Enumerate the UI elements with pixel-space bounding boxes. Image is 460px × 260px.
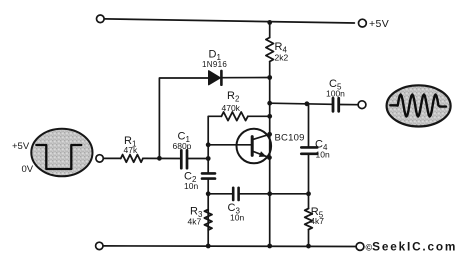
svg-text:1N916: 1N916 [202,60,227,69]
input source symbol (pulse ellipse) [12,129,93,177]
wire input [103,157,120,159]
wire: base [208,144,251,146]
wire [340,104,358,106]
wire: C3 line [208,193,232,195]
terminal top-right (+5V) [359,19,367,27]
svg-text:10n: 10n [316,150,330,160]
resistor R2 (470k) [221,112,248,121]
resistor R3 (4k7) [204,210,212,231]
terminal bottom-left [96,242,103,249]
svg-text:4k7: 4k7 [310,216,324,226]
transistor Q1 BC109 [237,129,305,164]
terminal output [358,101,366,109]
wire: main vertical collector line [269,22,271,37]
resistor R1 (47k) [121,155,143,163]
wire [143,157,180,159]
wire [240,193,309,195]
terminal top-left [97,15,105,23]
label +5V (top right) [369,18,389,30]
svg-text:47k: 47k [124,145,138,155]
bottom rail [103,245,356,248]
wire: R2 branch vertical [208,116,221,158]
pulse waveform [36,145,81,169]
svg-text:©SeekIC.com: ©SeekIC.com [366,240,458,254]
capacitor C1 (680p) [173,131,192,169]
capacitor C3 (10n) [228,188,245,223]
resistor R4 (2k2) [266,38,274,62]
svg-text:100n: 100n [326,89,345,99]
svg-text:+5V: +5V [369,18,389,30]
capacitor C4 (10n) [301,103,330,193]
capacitor C2 (10n) [184,159,215,247]
svg-text:+5V: +5V [12,141,30,152]
svg-text:0V: 0V [22,164,34,175]
capacitor C5 (100n) [326,78,345,111]
output waveform ellipse [387,85,451,126]
svg-text:10n: 10n [230,213,244,223]
wire [188,158,208,160]
svg-text:4k7: 4k7 [188,217,202,227]
diode D1 (1N916) [202,49,270,85]
svg-text:10n: 10n [184,181,198,191]
wire: C5 node line [270,103,332,104]
watermark SeekIC [366,240,458,254]
svg-text:R2: R2 [227,90,240,104]
top supply rail [104,19,354,23]
resistor R5 (4k7) [305,209,313,230]
terminal input [96,155,103,162]
wire: D1 branch (vertical from input node up, then right) [159,78,208,158]
terminal bottom-right [356,243,364,251]
svg-text:2k2: 2k2 [275,53,289,63]
svg-text:BC109: BC109 [275,133,305,144]
wire [248,115,270,117]
svg-text:470k: 470k [222,103,241,113]
svg-text:680p: 680p [173,141,192,151]
